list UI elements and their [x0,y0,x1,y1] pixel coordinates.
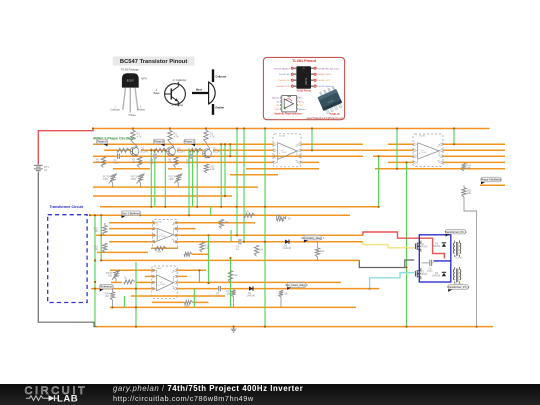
wire blue stub [434,260,451,262]
svg-text:50k: 50k [108,275,113,278]
wire row 282 [111,281,341,283]
svg-text:Base: Base [154,91,160,95]
capacitor C6 470n [422,260,434,273]
svg-text:4.7k: 4.7k [174,135,180,139]
net flag Phase C [191,144,196,147]
svg-text:100k: 100k [131,178,137,181]
wire ground bus [96,326,493,328]
net flag Phase B [160,144,165,147]
transistor Q3 BC547 [203,143,222,158]
svg-text:Pin#06: OUT: Pin#06: OUT [317,80,330,82]
wire main +V bus [93,128,490,130]
svg-text:Collector: Collector [216,76,227,79]
potentiometer POT1 100k [103,174,117,188]
svg-text:BC547: BC547 [177,150,185,154]
svg-text:TL081: TL081 [281,152,286,154]
svg-text:5k: 5k [288,218,291,221]
svg-text:10k: 10k [94,230,99,233]
svg-text:100n: 100n [186,161,192,164]
svg-text:N/C: N/C [299,98,303,100]
svg-text:TL081: TL081 [279,136,286,138]
svg-text:Phase C: Phase C [184,140,194,144]
svg-text:Secondary_Aleg_1: Secondary_Aleg_1 [301,236,324,240]
TL081 DIP-8 body [296,66,311,88]
svg-text:100n: 100n [150,161,156,164]
svg-text:1u: 1u [236,248,239,251]
wire row 242 [109,241,363,243]
svg-text:Phase A: Phase A [97,140,107,144]
transformer circuit dashed box [48,215,87,303]
svg-text:100n: 100n [114,161,120,164]
svg-text:1N4004: 1N4004 [432,275,441,278]
transformer T1 [453,241,462,260]
net flag Osc 1 Buffered [122,216,127,219]
transistor M1 IRF540 [415,241,428,252]
svg-text:TL081: TL081 [419,136,426,138]
svg-text:http://circuitlab.com/c786w8m7: http://circuitlab.com/c786w8m7hn49w [113,394,254,403]
svg-text:TL081: TL081 [161,236,166,238]
BC547 pinout image: title bar [113,57,195,66]
TL081 pinout image card [263,57,344,119]
svg-text:Pin#04: VCC-: Pin#04: VCC- [277,86,291,88]
capacitor C2 100n [150,153,157,164]
wire row 289 [91,288,379,290]
wire row 270 [110,269,206,271]
capacitor C5 1u [216,286,221,298]
wire dark gate feed [359,260,414,268]
svg-text:gary.phelan / 74th/75th Projec: gary.phelan / 74th/75th Project 400Hz In… [113,384,303,393]
resistor R2 4.7k (collector) [168,129,179,143]
svg-text:TL081 IC: TL081 IC [329,113,340,116]
svg-text:TL081 Pinout: TL081 Pinout [292,59,317,63]
svg-text:Reference: Reference [100,285,113,289]
potentiometer POT5 50k [106,270,120,282]
resistor R24 5k6 [462,163,472,171]
transistor Q1 BC547 [130,143,149,156]
wire battery negative (gray) [38,173,96,327]
wire U3 feedback row [151,247,178,249]
wire phase A buffered stub [480,184,505,186]
wire yellow gate drive M1 [363,242,414,248]
svg-text:TL081: TL081 [421,152,426,154]
resistor R15 10k [254,245,264,256]
wire row 150 [104,149,505,151]
svg-text:4.7k: 4.7k [210,135,216,139]
svg-text:2.2k: 2.2k [205,247,210,250]
svg-text:TL081: TL081 [304,78,308,86]
svg-text:2.2k: 2.2k [210,168,215,171]
footer bar [0,384,540,405]
wire row 276 [145,275,187,277]
svg-text:IRF540: IRF540 [420,246,429,249]
svg-text:10k: 10k [259,249,264,252]
op-amp U4 TL081 [152,266,177,298]
svg-text:BC547 Transistor Pinout: BC547 Transistor Pinout [120,59,187,65]
diode D3 1N4004 [432,243,446,249]
svg-text:VCC+: VCC+ [299,101,305,103]
wire mid bus [100,206,379,208]
svg-text:TL081: TL081 [156,268,163,270]
wire row 260 [101,259,359,261]
potentiometer POT4 5k [277,215,292,222]
ground symbol [231,327,237,333]
svg-text:IRF540: IRF540 [420,273,429,276]
wire gray right rail [464,197,477,327]
op-amp U2 TL081 [413,134,443,167]
resistor R23 10k [94,243,107,252]
svg-text:470n: 470n [427,270,433,273]
resistor R13 2.2k [200,242,210,252]
net flag Sec_lower_Aleg_1 [287,287,292,290]
diode D1 1N4148 [283,240,292,251]
svg-text:9V: 9V [44,168,47,172]
wire U4 feedback row [152,301,209,303]
resistor R10 2.2k (Q3 emitter) [204,164,215,173]
svg-text:BC547: BC547 [127,81,135,83]
battery BT1 [34,164,50,172]
svg-text:10k: 10k [320,250,325,253]
op-amp U1 TL081 [273,134,301,167]
svg-text:NPN: NPN [141,77,146,80]
wire row 175 [230,174,278,176]
node junction dots [89,127,478,327]
svg-text:1N4148: 1N4148 [283,247,292,250]
wire row 254 [192,253,209,255]
resistor R25 10k [462,185,472,197]
net flag Transformer_Pri_2 [448,289,453,292]
svg-text:Balance: Balance [272,98,280,100]
svg-text:Transformer Circuit: Transformer Circuit [50,205,84,209]
op-amp U3 TL081 [153,220,178,249]
wire row 162 [93,161,505,163]
TL081 symbolic representation [272,96,307,112]
svg-text:3 | Emitter: 3 | Emitter [172,103,184,107]
svg-text:100k: 100k [156,251,162,254]
net flag Secondary_Aleg_1 [304,240,309,243]
resistor R26 2k2 [105,289,115,308]
svg-text:Pin#07: VCC+: Pin#07: VCC+ [317,74,332,76]
resistor R18 2k [124,276,135,284]
wire row 235 [96,234,363,236]
resistor R21 10k [228,271,238,283]
resistor R6 47k [168,157,178,168]
svg-text:Transformer_Pri_1: Transformer_Pri_1 [444,230,467,234]
svg-text:BC547: BC547 [141,150,149,154]
svg-text:Pin#08: N/C Not Conn.: Pin#08: N/C Not Conn. [317,67,340,70]
wire blue output loop [419,235,451,282]
svg-text:TL081: TL081 [160,284,165,286]
svg-text:TL081 Pinout: TL081 Pinout [296,90,311,93]
capacitor C4 1u [236,239,242,251]
potentiometer POT2 100k [131,174,145,188]
resistor R17 47k horizontal row 254 [184,252,192,256]
svg-text:LAB: LAB [57,394,78,405]
wire battery positive (red) [38,129,93,165]
wire cyan gate drive M2 [370,273,415,289]
svg-text:Balance: Balance [299,109,307,111]
svg-text:Base: Base [196,89,203,92]
svg-text:Emitter: Emitter [138,109,146,112]
svg-text:BC547: BC547 [213,150,221,154]
svg-text:www.TheEngineeringProjects.com: www.TheEngineeringProjects.com [307,117,343,120]
svg-text:IN-: IN- [277,101,280,103]
svg-text:Phase B: Phase B [154,140,164,144]
svg-text:10k: 10k [467,192,472,195]
svg-text:2 Base: 2 Base [129,114,137,117]
BC547 circle transistor symbol [154,78,187,107]
resistor R22 10k [94,223,107,236]
resistor R1 4.7k (collector) [131,129,142,143]
resistor R11 47k [244,211,255,218]
wire row 296 [131,295,225,297]
wire row 169 [113,168,505,170]
svg-text:Pin#03: IN+: Pin#03: IN+ [279,80,291,82]
capacitor C3 100n [186,153,193,164]
svg-text:Collector: Collector [111,109,121,112]
net flag Transformer_Pri_1 [446,234,451,237]
wire row 252 [97,251,148,253]
resistor R27 47k [226,290,235,307]
svg-text:10k: 10k [94,248,99,251]
svg-text:Osc 1 Buffered: Osc 1 Buffered [122,211,140,215]
net flag Phase A Buffered [481,182,486,185]
svg-text:TO-92 Package: TO-92 Package [121,68,140,72]
svg-text:Sec_lower_Aleg_1: Sec_lower_Aleg_1 [285,283,308,287]
svg-text:10k: 10k [284,293,289,296]
net flag Phase A [103,144,108,147]
CircuitLab logo [25,385,88,405]
transistor M2 IRF540 [415,268,428,279]
TL081 3D chip photo [316,85,344,114]
wire row 156 [93,155,505,157]
resistor R14 feedback U3 [155,246,167,253]
resistor R5 47k [132,157,142,168]
diode D4 1N4004 [432,272,446,278]
wire row 307 [110,306,356,308]
svg-text:10k: 10k [233,274,238,277]
svg-text:Pin#05: Balance: Pin#05: Balance [317,86,334,88]
resistor R3 4.7k (collector) [204,129,215,143]
wire row 196 [93,195,232,197]
resistor R9 10k (base) [190,148,203,152]
capacitor C1 100n [114,153,121,164]
resistor R8 10k (base) [154,148,167,152]
svg-text:2k: 2k [124,276,127,279]
svg-text:100k: 100k [169,178,175,181]
svg-text:1 | Collector: 1 | Collector [173,78,187,82]
resistor R20 10k [279,291,289,308]
svg-text:100k: 100k [103,178,109,181]
BC547 D-shape symbol [192,69,226,114]
svg-text:2k2: 2k2 [105,295,110,298]
wire row 229 [109,228,196,230]
wire row 223 [109,222,255,224]
svg-text:5k6: 5k6 [467,167,472,170]
svg-text:4.7k: 4.7k [137,135,143,139]
wire row 144 [93,143,505,145]
potentiometer POT3 100k [169,174,183,188]
svg-text:Phase A Buffered: Phase A Buffered [481,178,502,182]
resistor R7 10k (base) [117,148,130,152]
svg-text:Pin#02: IN-: Pin#02: IN- [279,74,290,76]
svg-text:1N4148: 1N4148 [247,295,256,298]
svg-text:TL081: TL081 [156,221,163,223]
svg-text:1N4004: 1N4004 [432,245,441,248]
wire red to output stage [363,232,445,259]
wire green verticals [95,129,454,327]
svg-text:Pin#01: Balance: Pin#01: Balance [274,68,291,70]
wire row 187 [93,186,258,188]
svg-text:Symbolic Representation: Symbolic Representation [274,112,302,115]
TL081 pins and labels [274,67,340,88]
svg-text:100k: 100k [184,304,190,307]
wire osc1 buffered row [90,214,350,216]
resistor R16 10k [315,242,325,261]
BC547 TO-92 package drawing [111,68,147,118]
diode D2 1N4148 [247,286,256,297]
net flag Reference [100,289,105,292]
resistor R19 feedback U4 [184,300,193,307]
transformer T2 [453,267,462,286]
resistor R4 47k [96,157,106,168]
svg-text:47k: 47k [245,211,250,214]
svg-text:Emitter: Emitter [216,107,225,110]
svg-text:VCC-: VCC- [275,109,280,111]
resistor R12 10k [219,219,229,228]
svg-text:T1 xfmr: T1 xfmr [455,257,463,260]
transistor Q2 BC547 [167,143,186,156]
svg-text:Transformer_Pri_2: Transformer_Pri_2 [447,285,470,289]
